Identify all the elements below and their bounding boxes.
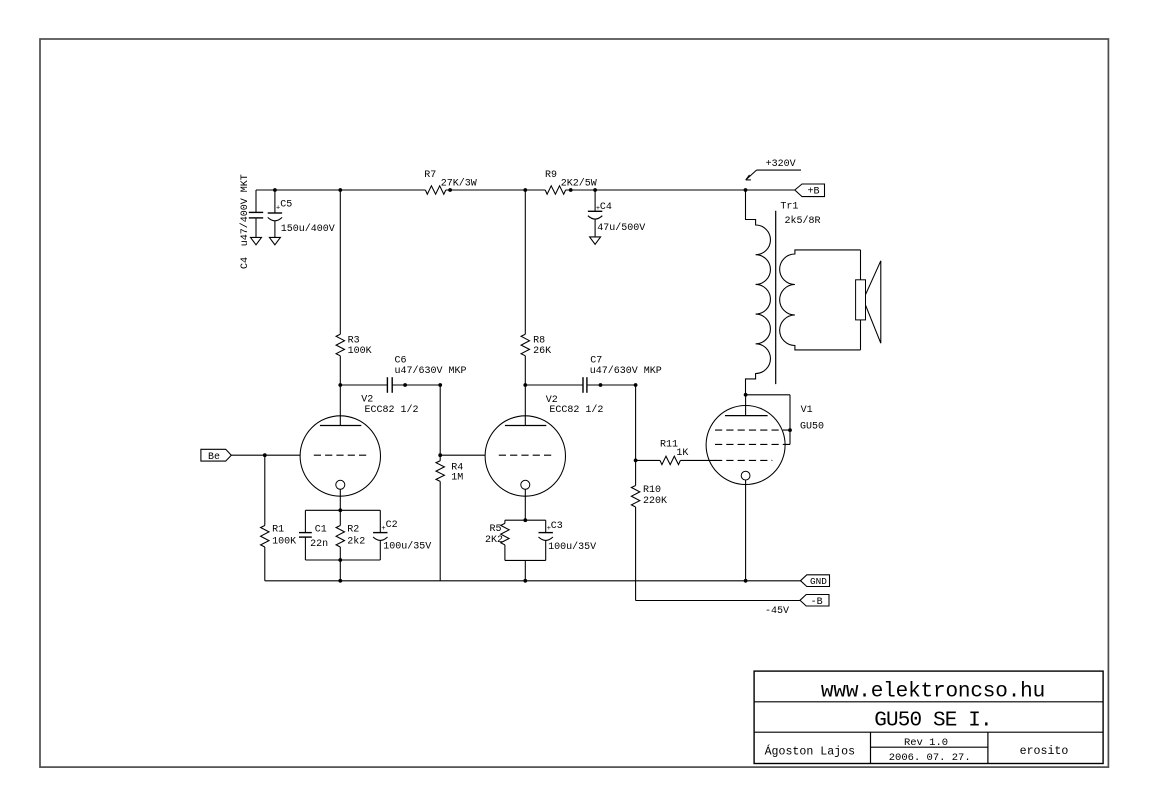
triode V2 ECC82 1/2 (first) xyxy=(300,416,380,496)
ground xyxy=(251,237,262,244)
svg-text:100K: 100K xyxy=(272,537,296,548)
svg-text:GND: GND xyxy=(810,576,827,587)
node anode/C6 branch xyxy=(338,383,342,387)
capacitor C2 100u/35V xyxy=(379,510,381,532)
capacitor C5 150u/400V xyxy=(273,188,277,192)
svg-text:-B: -B xyxy=(811,597,823,608)
svg-text:47u/500V: 47u/500V xyxy=(597,222,645,234)
svg-text:2006. 07. 27.: 2006. 07. 27. xyxy=(889,752,971,764)
ground xyxy=(590,237,601,244)
resistor R8 26K xyxy=(521,334,529,356)
cathode V2a xyxy=(336,480,345,489)
grid dashes g3 xyxy=(715,443,790,445)
wire Be to grid xyxy=(231,454,300,456)
node anode/C7 branch xyxy=(523,383,527,387)
svg-text:R9: R9 xyxy=(545,170,557,181)
svg-text:Ágoston Lajos: Ágoston Lajos xyxy=(765,745,855,759)
node Be/R1 xyxy=(263,453,267,457)
svg-text:Tr1: Tr1 xyxy=(780,202,798,213)
svg-text:R3: R3 xyxy=(348,335,360,346)
svg-text:Be: Be xyxy=(208,452,220,463)
svg-text:2K2/5W: 2K2/5W xyxy=(561,177,597,189)
capacitor C4 47u/500V xyxy=(593,188,597,192)
svg-text:C2: C2 xyxy=(386,520,398,531)
resistor R2 2k2 xyxy=(339,510,341,525)
svg-text:100u/35V: 100u/35V xyxy=(548,541,596,553)
node rail-R8 xyxy=(523,188,527,192)
svg-text:R8: R8 xyxy=(533,335,545,346)
svg-text:+B: +B xyxy=(807,187,819,198)
transformer core xyxy=(775,211,777,384)
wire GND rail xyxy=(265,580,801,582)
wire anode V2a xyxy=(339,190,341,334)
resistor R10 220K xyxy=(635,460,637,485)
svg-text:C1: C1 xyxy=(315,525,327,536)
svg-text:220K: 220K xyxy=(643,496,667,507)
ground xyxy=(269,237,280,244)
capacitor C4 u47/400V MKT xyxy=(255,190,257,212)
svg-text:Rev 1.0: Rev 1.0 xyxy=(904,737,948,749)
cathode V2b xyxy=(521,480,530,489)
wire C6 to grid2 / R4 xyxy=(439,385,441,581)
wire top B+ rail xyxy=(256,189,425,191)
svg-text:1M: 1M xyxy=(451,473,463,484)
svg-text:2K2: 2K2 xyxy=(485,535,503,546)
svg-text:C5: C5 xyxy=(280,199,292,210)
svg-text:u47/630V MKP: u47/630V MKP xyxy=(590,365,662,377)
capacitor C6 u47/630V MKP xyxy=(340,384,387,386)
power flag GND xyxy=(801,575,830,587)
svg-text:+320V: +320V xyxy=(766,159,796,170)
wire R3 to anode xyxy=(339,356,341,426)
svg-text:26K: 26K xyxy=(533,346,551,357)
svg-text:GU50: GU50 xyxy=(800,421,824,432)
svg-text:u47/400V MKT: u47/400V MKT xyxy=(239,174,251,246)
capacitor C3 100u/35V xyxy=(545,520,547,532)
svg-text:R10: R10 xyxy=(643,485,661,496)
supply flag +B xyxy=(795,184,825,197)
svg-text:R1: R1 xyxy=(272,524,284,535)
svg-text:GU50 SE I.: GU50 SE I. xyxy=(874,710,992,733)
svg-text:R5: R5 xyxy=(490,524,502,535)
svg-text:erosito: erosito xyxy=(1020,745,1069,758)
speaker xyxy=(860,250,862,350)
svg-text:2k5/8R: 2k5/8R xyxy=(785,215,821,227)
svg-text:ECC82 1/2: ECC82 1/2 xyxy=(549,404,603,416)
svg-text:ECC82 1/2: ECC82 1/2 xyxy=(365,404,419,416)
input flag Be xyxy=(201,449,231,461)
resistor R9 2K2/5W xyxy=(545,186,565,194)
wire C7 to R11/R10 xyxy=(635,385,637,460)
transformer Tr1 secondary winding xyxy=(780,250,861,350)
screen grid tie wire xyxy=(746,394,790,396)
svg-text:22n: 22n xyxy=(310,539,328,550)
svg-text:V1: V1 xyxy=(801,405,813,416)
grid dashes g1 xyxy=(715,459,772,461)
node +320V junction xyxy=(744,188,748,192)
grid dashes g2 xyxy=(715,429,790,431)
svg-text:27K/3W: 27K/3W xyxy=(441,177,477,189)
resistor R4 1M xyxy=(435,461,445,482)
resistor R3 100K xyxy=(336,334,344,356)
svg-text:www.elektroncso.hu: www.elektroncso.hu xyxy=(821,681,1045,704)
pentode V1 GU50 xyxy=(706,406,785,485)
svg-text:u47/630V MKP: u47/630V MKP xyxy=(395,365,467,377)
resistor R5 2K2 xyxy=(504,520,506,523)
node rail-R3 xyxy=(338,188,342,192)
svg-text:C3: C3 xyxy=(551,521,563,532)
resistor R11 1K xyxy=(636,459,660,461)
grid dashes V2a xyxy=(314,454,366,456)
wire anode V2b xyxy=(524,190,526,334)
power flag -B xyxy=(800,595,829,607)
svg-text:R7: R7 xyxy=(424,170,436,181)
cathode network V2b box xyxy=(505,519,546,521)
svg-text:-45V: -45V xyxy=(765,606,789,617)
capacitor C1 22n xyxy=(304,510,306,532)
cathode network V2a box xyxy=(305,509,380,511)
resistor R1 100K xyxy=(264,455,266,525)
capacitor C7 u47/630V MKP xyxy=(525,384,583,386)
svg-text:100K: 100K xyxy=(348,346,372,357)
svg-text:R2: R2 xyxy=(347,524,359,535)
cathode V1 xyxy=(741,471,750,480)
svg-text:150u/400V: 150u/400V xyxy=(281,223,335,235)
svg-text:C4: C4 xyxy=(600,202,612,213)
wire -B / -45V xyxy=(636,600,800,602)
svg-text:100u/35V: 100u/35V xyxy=(383,541,431,553)
triode V2 ECC82 1/2 (second) xyxy=(485,416,565,496)
title block frame xyxy=(754,671,1103,763)
transformer Tr1 primary winding xyxy=(746,190,771,395)
svg-text:1K: 1K xyxy=(676,448,688,459)
svg-text:R11: R11 xyxy=(660,439,678,450)
grid dashes V2b xyxy=(499,454,551,456)
svg-text:2k2: 2k2 xyxy=(347,536,365,548)
resistor R7 27K/3W xyxy=(425,186,445,194)
svg-text:C4: C4 xyxy=(240,257,251,269)
